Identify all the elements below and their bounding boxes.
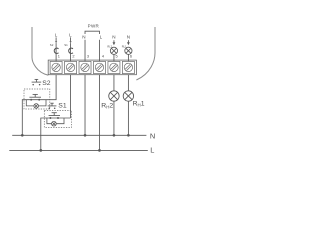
terminal 4 screw (93, 61, 105, 73)
input S1 internal: down arrow (69, 37, 71, 43)
svg-text:L: L (69, 33, 72, 38)
svg-text:L: L (100, 35, 103, 40)
junction RH2-N (113, 134, 116, 137)
input S1 internal: input sensor symbol (69, 48, 73, 53)
svg-text:1: 1 (58, 54, 60, 59)
pushbutton S2 glow lamp branch (26, 100, 46, 109)
svg-text:S1: S1 (64, 43, 68, 47)
input S2 internal: input sensor symbol (54, 48, 58, 53)
wire S1 to terminal 2 (70, 75, 72, 118)
output RL1: lamp symbol (125, 47, 132, 54)
wire lamp RH1 to N bus (127, 101, 129, 135)
pushbutton S1 label icon (48, 103, 57, 109)
svg-text:4: 4 (102, 54, 105, 59)
input S1 internal: wire to terminal (70, 43, 72, 61)
device outline left side fading top (31, 13, 33, 28)
wire S1 to L bus (41, 118, 45, 150)
pushbutton S1 dashed enclosure (44, 110, 71, 127)
wire terminal 3 to N bus (84, 75, 86, 136)
svg-text:N: N (82, 35, 85, 40)
pushbutton S2 label icon (32, 79, 42, 85)
device outline right side (136, 27, 155, 80)
svg-text:N: N (150, 132, 155, 141)
svg-text:RH1: RH1 (133, 100, 145, 107)
output RL2: down arrow (113, 40, 116, 45)
svg-text:N: N (112, 35, 115, 40)
terminal 5 screw (108, 61, 120, 73)
svg-text:2: 2 (72, 54, 74, 59)
junction t4-L (98, 149, 101, 152)
svg-text:S1: S1 (58, 102, 67, 109)
output RL1: down arrow (127, 40, 130, 45)
junction RH1-N (127, 134, 130, 137)
pushbutton S1 contact (44, 113, 70, 119)
device outline right side fading top (154, 13, 156, 28)
lamp RH1 (123, 91, 133, 101)
svg-text:L: L (55, 33, 58, 38)
terminal 3 screw (79, 61, 91, 73)
svg-text:PWR: PWR (88, 24, 100, 29)
pushbutton S2 dashed enclosure (24, 89, 50, 109)
terminal 2 screw (65, 61, 77, 73)
terminal block outer box (48, 60, 136, 75)
wire terminal to lamp RH1 (127, 75, 129, 91)
terminal 6 screw (122, 61, 134, 73)
pushbutton S1 glow lamp branch (47, 118, 64, 126)
wire terminal 4 to L bus (98, 75, 100, 151)
svg-text:3: 3 (87, 54, 89, 59)
svg-text:RH2: RH2 (101, 102, 113, 109)
wire S2 to terminal 1 (50, 75, 56, 100)
L bus line (9, 149, 148, 151)
output RL1: wire to terminal (127, 54, 129, 61)
junction S2-N (21, 134, 24, 137)
wire lamp RH2 to N bus (113, 101, 115, 135)
output RL2: lamp symbol (110, 47, 117, 54)
device outline left side (32, 27, 48, 75)
PWR N wire to terminal 3 (84, 40, 86, 62)
N bus line (12, 134, 146, 136)
terminal 1 screw (50, 61, 62, 73)
junction S1-L (39, 149, 42, 152)
input S2 internal: down arrow (55, 37, 57, 43)
svg-text:L: L (150, 146, 154, 155)
PWR bracket (85, 31, 99, 34)
input S2 internal: wire to terminal (55, 43, 57, 61)
svg-text:N: N (127, 35, 130, 40)
PWR L wire to terminal 4 (98, 40, 100, 62)
lamp RH2 (109, 91, 119, 101)
wire S2 to N bus (22, 100, 24, 136)
wire terminal to lamp RH2 (113, 75, 115, 91)
svg-text:S2: S2 (42, 80, 51, 87)
output RL2: wire to terminal (113, 54, 115, 61)
svg-text:S2: S2 (50, 43, 54, 47)
junction t3-N (84, 134, 87, 137)
pushbutton S2 contact (24, 94, 50, 100)
